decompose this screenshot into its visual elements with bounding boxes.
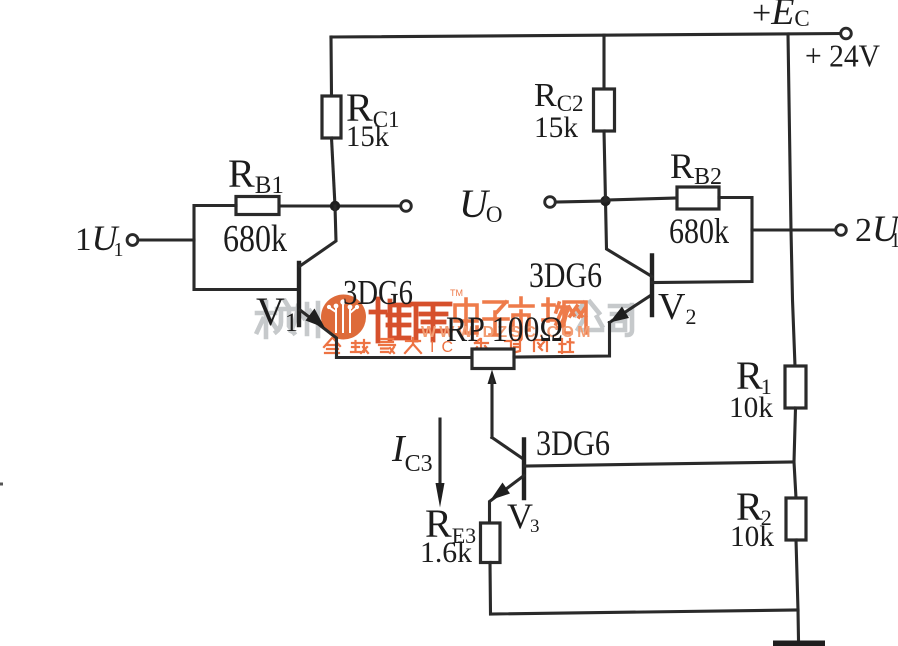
wire RE3 bottom to rail: [490, 563, 798, 615]
node V1 collector: [330, 201, 340, 211]
wire Uo right: [555, 201, 606, 202]
logo circle: [321, 295, 366, 340]
terminal Uo left: [401, 201, 412, 212]
big orange char wei: [371, 299, 409, 341]
wire V1 emitter to RP: [337, 356, 473, 359]
orange char wang: [564, 302, 586, 333]
gray char gong: [575, 302, 602, 330]
wire right rail: [788, 34, 795, 366]
potentiometer RP: [472, 349, 514, 369]
orange char chang: [543, 299, 568, 328]
wiper arrow RP: [488, 370, 497, 385]
svg-text:3DG6: 3DG6: [536, 423, 610, 463]
terminal 2U1: [836, 225, 847, 236]
orange small row: quan qiu zui da IC cai gou wang zhan: [324, 338, 574, 353]
terminal +Ec: [841, 28, 852, 39]
wire V2 collector: [606, 201, 653, 277]
resistor R2: [786, 498, 806, 540]
wire RB1 left to base loop: [194, 206, 299, 290]
wire collector node V1 to output circle: [279, 204, 401, 207]
terminal 1U1: [127, 235, 138, 246]
svg-text:15k: 15k: [534, 111, 578, 144]
arrow V2 emitter: [610, 307, 630, 323]
wire RC2 bottom lead: [604, 131, 606, 201]
wire V2 emitter diagonal: [610, 295, 653, 323]
wire V1 emitter: [300, 310, 337, 358]
gray char zhou: [291, 303, 318, 336]
svg-text:TM: TM: [450, 288, 463, 298]
orange char shi: [510, 298, 533, 338]
ground: [773, 641, 825, 646]
wire input 1: [137, 238, 194, 241]
svg-text:1.6k: 1.6k: [420, 536, 472, 569]
wire RP right to V2 emitter: [514, 323, 610, 358]
svg-text:+EC: +EC: [752, 0, 810, 33]
svg-text:15k: 15k: [346, 120, 389, 153]
svg-text:680k: 680k: [223, 218, 287, 260]
svg-text:V1: V1: [256, 289, 298, 337]
resistor RB2: [677, 187, 719, 209]
svg-text:RB1: RB1: [228, 151, 284, 199]
svg-text:1U1: 1U1: [75, 218, 124, 261]
wire input 2: [752, 228, 837, 231]
wire RB2 left lead: [606, 198, 678, 200]
terminal Uo right: [545, 197, 556, 208]
wire rail R1 to R2: [794, 408, 796, 498]
wire RC2 top lead: [602, 35, 605, 89]
transistor V2 base bar: [650, 256, 654, 316]
resistor RE3: [481, 523, 501, 563]
svg-text:RP 100Ω: RP 100Ω: [446, 309, 563, 349]
resistor RC2: [594, 89, 615, 131]
svg-text:+ 24V: + 24V: [805, 38, 880, 74]
node V2 collector: [600, 196, 610, 206]
arrow V1 emitter: [306, 309, 326, 329]
svg-text:3DG6: 3DG6: [529, 255, 602, 295]
svg-text:680k: 680k: [669, 211, 729, 251]
resistor RB1: [236, 197, 279, 215]
svg-text:IC3: IC3: [391, 428, 433, 477]
svg-text:V2: V2: [658, 286, 696, 329]
wire V3 base to rail: [525, 462, 794, 466]
svg-text:10k: 10k: [730, 520, 774, 553]
stray mark left edge: [0, 483, 3, 486]
arrow V3 emitter: [491, 483, 511, 501]
wire top rail: [331, 34, 841, 38]
wire V3 collector diagonal: [492, 438, 524, 460]
orange char dian: [455, 299, 477, 333]
arrow IC3 current: [438, 419, 441, 490]
wire Rc1 top lead: [329, 37, 333, 96]
big orange char ku: [411, 304, 450, 340]
orange char zi: [484, 302, 508, 335]
transistor V3 base bar: [522, 440, 526, 499]
svg-text:V3: V3: [507, 496, 540, 537]
wire RP wiper shaft: [490, 380, 493, 438]
gray char si: [610, 305, 632, 335]
wire RB2 right to V2 base: [652, 198, 752, 283]
svg-text:1: 1: [890, 228, 898, 252]
wire V1 collector: [300, 206, 336, 266]
svg-text:10k: 10k: [729, 391, 773, 424]
wire V3 emitter: [490, 476, 525, 524]
svg-text:UO: UO: [459, 181, 503, 227]
svg-text:3DG6: 3DG6: [343, 273, 413, 312]
gray char hang: [257, 301, 294, 337]
resistor RC1: [322, 96, 341, 138]
svg-text:RB2: RB2: [670, 146, 722, 190]
resistor R1: [785, 366, 806, 408]
wire Rc1 bottom lead: [332, 138, 336, 206]
wire rail R2 to ground: [796, 540, 799, 640]
transistor V1 base bar: [297, 263, 301, 325]
